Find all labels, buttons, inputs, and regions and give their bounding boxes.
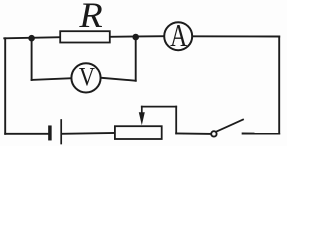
svg-text:A: A: [170, 19, 187, 54]
svg-text:R: R: [78, 0, 103, 36]
svg-text:V: V: [79, 63, 95, 92]
